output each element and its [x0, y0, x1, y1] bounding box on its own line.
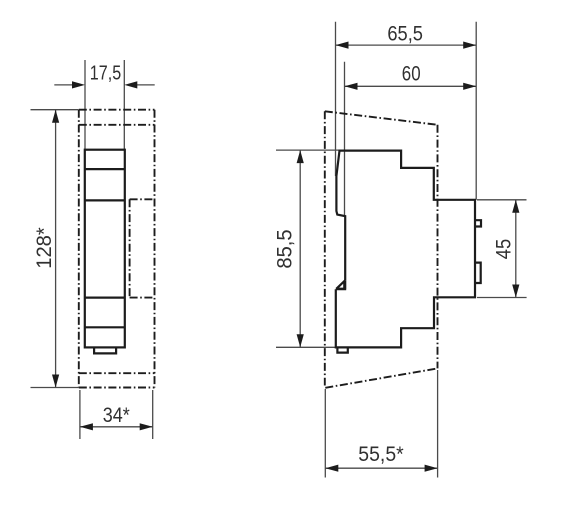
svg-text:34*: 34* [103, 404, 130, 427]
svg-text:128*: 128* [33, 227, 56, 269]
svg-text:60: 60 [402, 61, 421, 85]
svg-text:45: 45 [491, 239, 515, 259]
svg-text:65,5: 65,5 [387, 21, 423, 45]
svg-text:85,5: 85,5 [272, 229, 296, 268]
svg-text:55,5*: 55,5* [358, 442, 404, 466]
svg-text:17,5: 17,5 [90, 62, 121, 84]
